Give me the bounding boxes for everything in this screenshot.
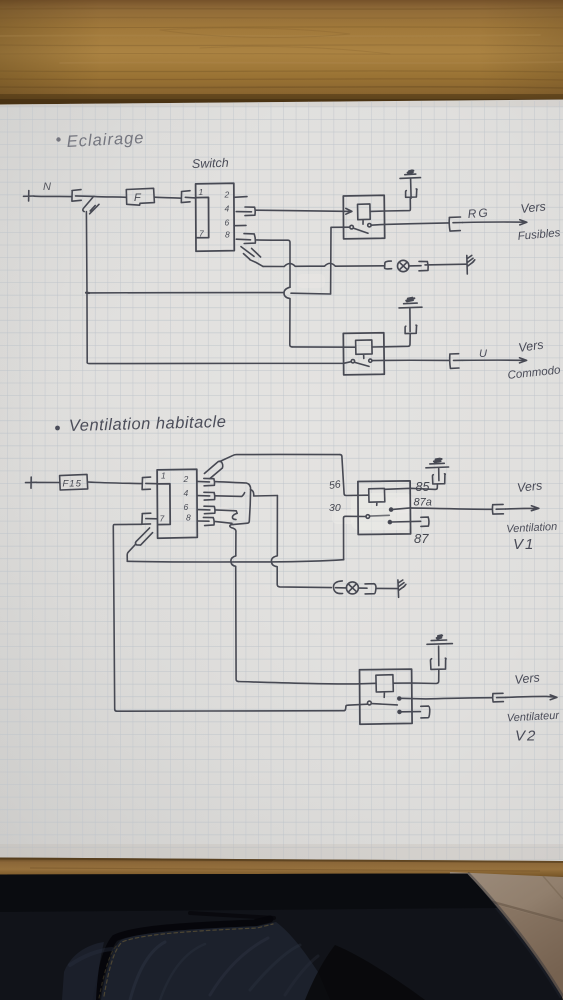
- wire and arrow Vers Commodo: [463, 358, 527, 363]
- connector RG female: [449, 217, 462, 231]
- title Ventilation habitacle: [55, 413, 227, 435]
- pin6 male connector: [197, 506, 215, 514]
- svg-text:7: 7: [160, 514, 165, 524]
- relay V1 coil: [369, 488, 385, 505]
- wire y293 bus to K1 vertical: [87, 293, 330, 294]
- fuse F: [126, 188, 154, 205]
- svg-text:RG: RG: [467, 205, 490, 221]
- step up into V2 contact: [344, 704, 367, 711]
- wire fuse to connector: [154, 197, 181, 198]
- switch connector block: [196, 183, 235, 251]
- lamp L2 left connector: [333, 581, 346, 594]
- svg-text:4: 4: [184, 488, 189, 498]
- ground G3 above K2: [399, 298, 422, 308]
- V2 lower contact connector: [398, 706, 430, 718]
- svg-text:N: N: [43, 181, 51, 193]
- wire and arrow Vers Fusibles: [463, 220, 527, 225]
- ground G6 above V2: [427, 635, 452, 644]
- wire pin4 to relay K1 coil: [256, 210, 352, 211]
- chassis ground G1: [467, 255, 475, 274]
- svg-text:V2: V2: [515, 728, 537, 745]
- svg-text:56: 56: [328, 478, 341, 492]
- suppressor C1 bracket: [406, 179, 417, 198]
- relay V1 box: [358, 481, 411, 535]
- fuse F15: [60, 474, 88, 490]
- svg-text:Vers: Vers: [516, 478, 543, 495]
- switch pin numbers: [199, 187, 231, 240]
- vertical x236 hop and down to V2 coil: [231, 556, 238, 682]
- wire V2 output: [401, 698, 492, 699]
- wire K2 coil to suppressor: [372, 334, 410, 347]
- relay K1 coil: [358, 204, 371, 224]
- lamp L1 left connector: [385, 261, 392, 269]
- svg-text:30: 30: [329, 502, 341, 514]
- svg-text:4: 4: [225, 204, 230, 214]
- pin 4 male connector: [236, 207, 255, 216]
- svg-text:U: U: [479, 348, 487, 360]
- relay K1 contacts: [350, 224, 371, 234]
- pin 6 stub: [234, 224, 246, 226]
- suppressor C4 bracket: [430, 646, 446, 669]
- svg-text:2: 2: [224, 190, 230, 200]
- ground G4 above V1: [426, 459, 449, 468]
- wire battery to connector: [34, 195, 72, 197]
- pin2 male connector: [197, 478, 215, 485]
- ventilation connector block: [157, 469, 197, 538]
- wooden table top: [0, 0, 563, 106]
- diagonal connector block top: [204, 461, 222, 478]
- relay V2 coil: [376, 675, 393, 698]
- section Eclairage: battery terminal +: [24, 191, 35, 202]
- connector J3 (female spade): [181, 191, 195, 203]
- wire bus vertical N: [85, 212, 88, 363]
- V1 lower contact 87 connector: [388, 517, 429, 526]
- wire x236 corner to V2 coil: [238, 682, 376, 684]
- svg-text:8: 8: [186, 513, 191, 523]
- svg-text:Switch: Switch: [192, 156, 229, 171]
- connector J2 (diagonal tap to bus): [83, 197, 99, 213]
- lamp L1 right connector: [410, 261, 429, 270]
- svg-text:Vers: Vers: [520, 199, 547, 216]
- wire pin7 left and down big loop: [113, 524, 344, 711]
- pin4 male connector: [197, 492, 215, 500]
- svg-text:6: 6: [225, 218, 230, 228]
- wire 30 up into V1 contact: [344, 516, 367, 559]
- wire + to F15: [37, 481, 60, 483]
- long wire 30 feed: [127, 560, 343, 562]
- arrow on K1 coil feed: [346, 208, 352, 214]
- svg-text:87: 87: [414, 531, 429, 546]
- section Ventilation: battery terminal +: [26, 477, 37, 488]
- crossed spade connector below pin8: [241, 247, 263, 267]
- relay V1 contacts: [366, 508, 393, 518]
- wire diag to 30 bus: [127, 544, 136, 561]
- relay K1 box: [343, 195, 384, 239]
- bottom wood strip edge: [0, 858, 563, 880]
- relay V2 box: [360, 669, 413, 724]
- lamp L2: [346, 582, 358, 594]
- white-out patches: [204, 274, 415, 530]
- floor lower right: [440, 872, 563, 1000]
- svg-text:1: 1: [199, 187, 204, 197]
- wire pin6 end curl: [215, 510, 237, 520]
- wire pin4 with bump: [215, 493, 244, 497]
- svg-text:87a: 87a: [414, 497, 432, 509]
- svg-text:7: 7: [199, 229, 204, 239]
- vertical connector chain x250: [230, 489, 251, 556]
- svg-text:6: 6: [184, 502, 189, 512]
- diagonal connector below pin7: [135, 528, 152, 545]
- wire K1 output to RG: [371, 223, 449, 225]
- pin7 female connector: [142, 513, 157, 524]
- svg-text:2: 2: [183, 474, 189, 484]
- vertical x277 lamp feed: [271, 496, 331, 588]
- svg-text:V1: V1: [513, 536, 535, 553]
- svg-text:F15: F15: [63, 479, 82, 490]
- connector U female: [450, 354, 463, 369]
- wire pin2 curl down: [215, 482, 251, 490]
- wire pin8 to junction: [215, 521, 233, 523]
- junction bus/y293: [86, 292, 89, 294]
- paper sheet: [0, 100, 563, 862]
- wire V1 output 87a: [393, 508, 492, 510]
- chassis ground G5: [398, 580, 406, 597]
- svg-text:Vers: Vers: [514, 670, 541, 687]
- wire F15 to connector: [88, 482, 142, 484]
- wire diag to top loop: [220, 454, 340, 461]
- relay K2 box: [343, 333, 384, 375]
- wire and arrow Vers Ventilateur V2: [506, 695, 557, 700]
- suppressor C2 bracket: [405, 309, 417, 334]
- connector V1 female: [492, 504, 505, 514]
- denim jeans: [0, 874, 563, 1000]
- connector J4 female: [142, 477, 157, 490]
- svg-text:1: 1: [161, 471, 166, 481]
- ground G2 above K1: [400, 170, 421, 178]
- lamp L1: [398, 260, 409, 271]
- relay K2 coil: [356, 340, 373, 359]
- relay V2 contacts: [368, 697, 401, 705]
- lamp L2 right connector: [359, 584, 376, 594]
- wire K1 common to bus vertical: [331, 227, 350, 294]
- connector J1 (female spade): [72, 190, 94, 202]
- hook pin2/pin4 junction: [251, 490, 278, 496]
- lamp L1 wire with hops: [263, 263, 384, 266]
- svg-text:85: 85: [416, 480, 430, 494]
- pin 8 male connector: [236, 234, 255, 244]
- wire pin8 right then down: [257, 240, 291, 287]
- wire K1 coil to suppressor: [370, 198, 410, 211]
- suppressor C3 bracket: [432, 469, 445, 484]
- block pin numbers: [160, 471, 192, 524]
- title Eclairage: [56, 129, 145, 151]
- wire V1 coil to suppressor 85: [385, 485, 438, 490]
- wire K2 coil feed from pin8 vertical: [292, 346, 356, 348]
- wire K2 output to U: [372, 359, 449, 361]
- wire and arrow Vers Ventilation V1: [506, 506, 539, 511]
- wire 56 vertical into V1 coil: [340, 455, 369, 496]
- svg-text:8: 8: [225, 230, 230, 240]
- pin 2 stub: [234, 196, 247, 199]
- wire bus to K2 common: [87, 362, 351, 364]
- wire main to fuse: [94, 195, 126, 198]
- wire lamp to ground: [425, 263, 466, 266]
- pin8 male connector: [198, 517, 215, 525]
- relay K2 contacts: [351, 359, 372, 366]
- wire lamp L2 to ground: [376, 587, 397, 589]
- wire V2 coil to suppressor: [393, 670, 439, 683]
- connector V2 female: [493, 693, 506, 702]
- vertical hop over y293 wire: [284, 287, 292, 347]
